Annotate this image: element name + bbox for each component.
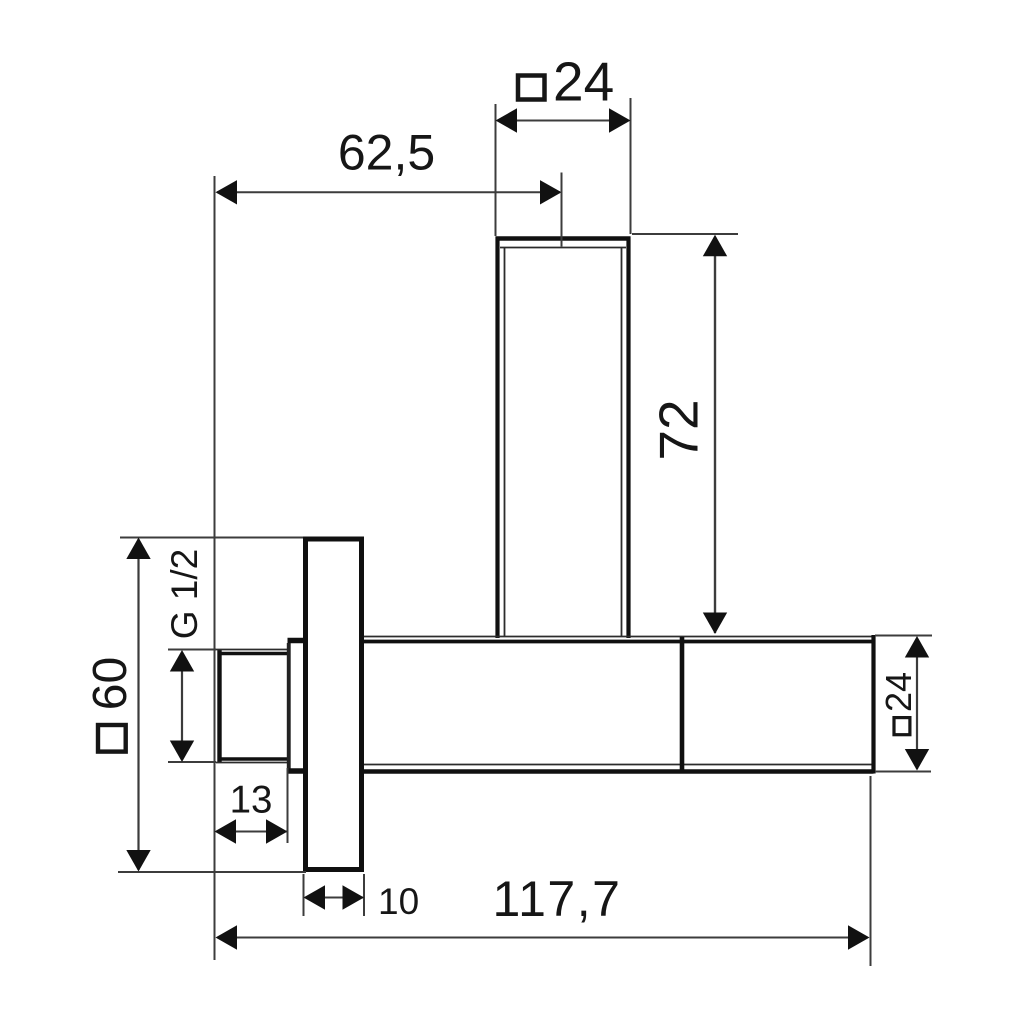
wall plate	[306, 539, 362, 870]
dim 62,5 dimension line	[217, 191, 560, 193]
dim 72 dimension line	[714, 237, 716, 633]
dim 13 left arrowhead	[215, 819, 237, 843]
dim 10 right extension line	[363, 874, 365, 916]
dim 72 top arrowhead	[703, 235, 727, 256]
riser tube outline	[496, 237, 631, 639]
flange ring bottom edge	[288, 768, 306, 774]
dim sq24-top right extension line	[630, 98, 632, 234]
dim G1/2 bottom arrowhead	[170, 741, 194, 763]
valve body top edge	[364, 637, 874, 642]
dim 10 left extension line	[303, 874, 305, 916]
dim 72 bottom arrowhead	[703, 613, 727, 635]
dim sq24-right top arrowhead	[905, 636, 929, 658]
dim 117,7 dimension line	[217, 937, 868, 939]
svg-text:60: 60	[84, 657, 137, 710]
nipple right face	[287, 643, 289, 768]
dim 13 right arrowhead	[266, 819, 288, 843]
left datum extension line	[214, 176, 216, 960]
dim sq60 bottom extension line	[118, 871, 306, 873]
svg-text:117,7: 117,7	[493, 871, 622, 927]
svg-text:13: 13	[230, 779, 273, 822]
dim sq24-right bottom extension line	[875, 771, 931, 773]
dim G1/2 top arrowhead	[170, 650, 194, 672]
valve body right end face	[871, 635, 875, 774]
svg-text:G 1/2: G 1/2	[164, 549, 205, 640]
dim sq60 top arrowhead	[126, 538, 150, 560]
svg-text:24: 24	[553, 51, 614, 113]
flange ring top edge	[288, 638, 306, 643]
dim 10 right arrowhead	[343, 885, 365, 909]
dim 117,7 right arrowhead	[848, 925, 870, 949]
nipple top edge	[216, 650, 289, 654]
dim sq24-right top extension line	[875, 635, 932, 637]
dim sq60 top extension line	[120, 537, 303, 539]
dim sq24-right square symbol	[894, 718, 910, 735]
dim G1/2 top extension line	[168, 649, 216, 651]
dim sq24-top left extension line	[495, 104, 497, 236]
valve body bottom edge	[364, 765, 874, 772]
dim sq60 bottom arrowhead	[126, 850, 150, 872]
flange ring left face	[288, 639, 290, 770]
dim 13 dimension line	[216, 831, 287, 833]
riser tube inner wall lines	[500, 248, 626, 637]
dim 10 left arrowhead	[304, 885, 326, 909]
dim 72 top extension line	[632, 233, 738, 235]
dim 117,7 right extension line	[870, 776, 872, 966]
valve body divider line	[680, 637, 685, 772]
dim sq60 dimension line	[137, 539, 139, 870]
nipple bottom edge	[216, 759, 289, 763]
dim sq24-top left arrowhead	[496, 108, 518, 132]
nipple left face	[217, 650, 221, 762]
dim 62,5 centerline tick	[561, 173, 563, 247]
dim sq24-right bottom arrowhead	[905, 749, 929, 771]
dim sq24-top dimension line	[497, 120, 629, 122]
svg-text:24: 24	[878, 672, 919, 712]
dim G1/2 bottom extension line	[168, 761, 216, 763]
dim 117,7 left arrowhead	[216, 925, 238, 949]
dim sq24-right dimension line	[916, 638, 918, 769]
dim G1/2 dimension line	[181, 652, 183, 760]
dim 13 right extension line	[287, 768, 289, 843]
dim 62,5 right arrowhead	[540, 180, 562, 204]
dim sq60 square symbol	[98, 725, 126, 752]
svg-text:72: 72	[648, 399, 710, 460]
dim sq24-top right arrowhead	[609, 108, 631, 132]
dim 62,5 left arrowhead	[216, 180, 238, 204]
dim 10 dimension line	[305, 897, 363, 899]
svg-text:62,5: 62,5	[338, 125, 435, 181]
svg-text:10: 10	[378, 881, 419, 922]
dim sq24-top square symbol	[518, 76, 545, 100]
